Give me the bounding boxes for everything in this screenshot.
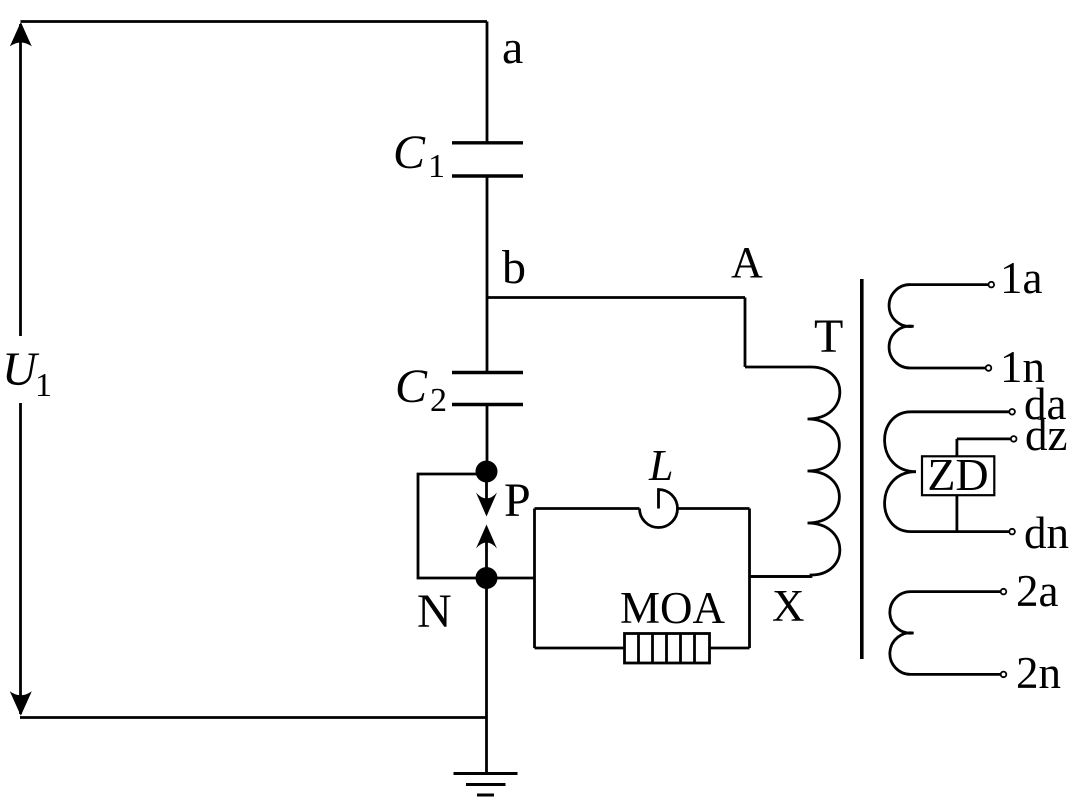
secondary winding 2 (2a-2n) (890, 592, 1001, 675)
secondary winding 1 (1a-1n) (889, 285, 988, 368)
arrowhead up (U1 top) (10, 22, 32, 47)
junction dot top (P) (476, 461, 498, 483)
svg-text:L: L (648, 441, 673, 490)
transformer core bar (860, 279, 864, 659)
MOA box right edge (748, 509, 751, 649)
secondary winding d (da-dn) (885, 412, 1010, 532)
voltage arrow U1 line (bottom segment) (19, 403, 22, 714)
inductor L loop (640, 490, 678, 528)
svg-text:C: C (393, 126, 426, 179)
wire b to A (horizontal) (487, 296, 745, 299)
svg-text:2n: 2n (1016, 648, 1061, 698)
spark gap down arrowhead (476, 493, 497, 517)
svg-text:P: P (504, 474, 531, 527)
wire A to winding (745, 366, 811, 369)
wire dz horizontal (957, 437, 1011, 440)
svg-text:1: 1 (428, 148, 445, 185)
svg-text:1: 1 (35, 367, 52, 404)
wire N to MOA box (487, 577, 535, 580)
svg-text:T: T (814, 310, 843, 363)
wire bottom horizontal (20, 716, 487, 719)
wire MOA box to winding bottom (X) (750, 575, 812, 578)
wire right vertical (a to C1) (486, 22, 489, 144)
MOA box left edge (533, 509, 536, 649)
svg-text:MOA: MOA (620, 583, 726, 633)
wire ZD down to dn (956, 495, 959, 531)
MOA box top edge right part (678, 507, 750, 510)
ZD box (922, 456, 994, 495)
svg-text:dn: dn (1024, 508, 1069, 558)
svg-text:1a: 1a (1000, 253, 1043, 303)
ground symbol (454, 772, 518, 775)
svg-text:2: 2 (430, 382, 447, 419)
terminal dn (1009, 529, 1015, 535)
svg-text:dz: dz (1025, 410, 1067, 460)
svg-text:a: a (502, 21, 523, 74)
MOA box bottom edge left part (535, 647, 625, 650)
MOA hatch line 4 (679, 634, 682, 664)
capacitor C2 (452, 371, 523, 374)
svg-text:N: N (417, 585, 452, 638)
terminal 2a (1001, 589, 1007, 595)
spark gap up arrowhead (476, 525, 497, 549)
bypass loop left of gap (418, 474, 487, 578)
spark gap up arrow shaft (485, 534, 488, 578)
capacitor C1 (452, 141, 523, 144)
terminal 1n (986, 365, 992, 371)
junction dot bottom (N) (476, 567, 498, 589)
MOA box bottom edge right part (710, 647, 750, 650)
terminal 1a (989, 282, 995, 288)
wire C2 to node P junction (486, 405, 489, 472)
MOA hatched resistor box (625, 634, 710, 664)
terminal 2n (1001, 672, 1007, 678)
MOA hatch line 1 (637, 634, 640, 664)
MOA hatch line 3 (665, 634, 668, 664)
svg-text:b: b (502, 241, 526, 294)
svg-text:C: C (395, 360, 428, 413)
wire dz down to ZD (956, 439, 959, 456)
svg-text:ZD: ZD (927, 449, 988, 500)
svg-text:X: X (772, 581, 805, 631)
transformer T primary winding (750, 367, 840, 577)
wire C1 to C2 (486, 176, 489, 373)
wire A down (744, 298, 747, 368)
voltage arrow U1 line (top segment) (19, 24, 22, 336)
MOA box top edge left part (535, 507, 640, 510)
MOA hatch line 5 (693, 634, 696, 664)
wire N down to ground (485, 578, 488, 774)
wire top horizontal (21, 20, 488, 23)
terminal da (1009, 409, 1015, 415)
arrowhead down (U1 bottom) (10, 691, 32, 716)
svg-text:2a: 2a (1016, 566, 1059, 616)
svg-text:A: A (731, 238, 763, 287)
terminal dz (1011, 436, 1017, 442)
spark gap down arrow shaft (485, 472, 488, 507)
MOA hatch line 2 (651, 634, 654, 664)
